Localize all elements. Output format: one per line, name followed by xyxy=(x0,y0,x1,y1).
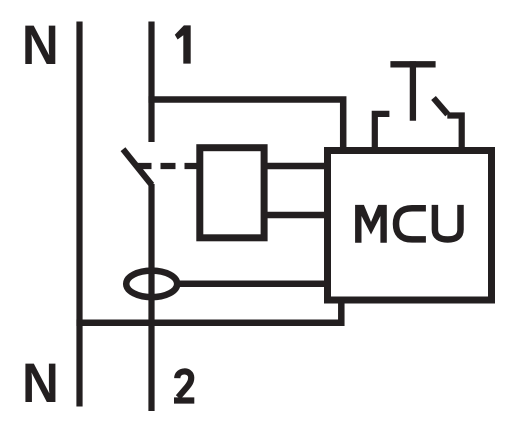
wire coil to MCU upper xyxy=(264,163,331,170)
wire CT1 to MCU xyxy=(177,281,331,288)
switch S2 test button right contact xyxy=(447,116,461,151)
trip coil K1 (actuator rectangle) xyxy=(200,148,264,238)
wire line conductor upper (terminal 1) xyxy=(148,22,154,143)
switch S2 push button actuator T bar xyxy=(390,61,435,67)
wire line conductor lower (terminal 2) xyxy=(148,184,154,411)
wire branch from terminal 1 to MCU supply xyxy=(148,100,343,151)
wire coil to MCU lower xyxy=(264,212,331,219)
svg-text:N: N xyxy=(22,353,59,414)
switch S2 test button blade xyxy=(434,98,448,114)
wire neutral line N xyxy=(76,22,82,407)
MCU U1 box xyxy=(328,151,492,301)
wire mechanical linkage (dashed) xyxy=(137,163,200,169)
current transformer CT1 xyxy=(126,271,177,298)
switch S2 test button left contact xyxy=(375,114,390,150)
svg-text:N: N xyxy=(22,15,59,76)
node 1 (line terminal label) xyxy=(175,25,191,63)
node MCU label xyxy=(355,205,460,243)
wire MCU return to neutral xyxy=(76,300,341,323)
node 2 (load terminal label) xyxy=(174,371,194,400)
switch S2 push button actuator T stem xyxy=(410,61,416,120)
switch S1 main contact blade xyxy=(123,149,152,185)
